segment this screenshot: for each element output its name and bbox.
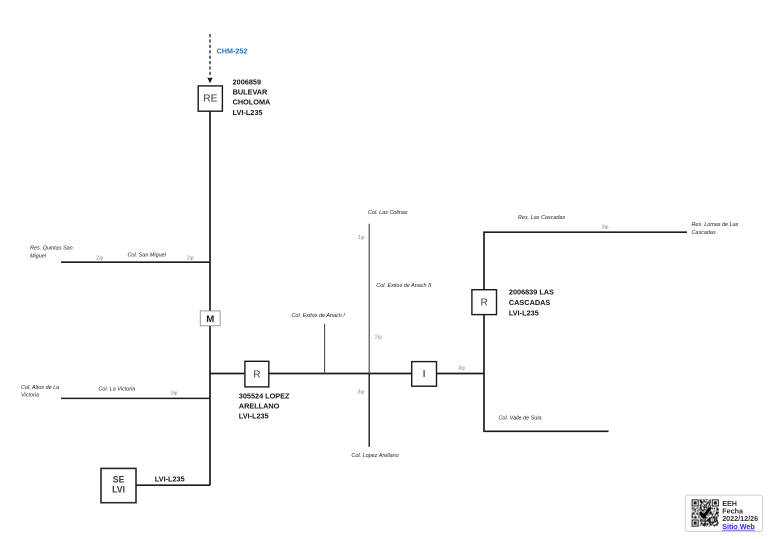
svg-text:ARELLANO: ARELLANO: [239, 401, 280, 410]
svg-text:LVI-L235: LVI-L235: [233, 108, 263, 117]
wire lateral Res. Quintas San Miguel / Col. San Miguel: [61, 261, 210, 263]
wire branch Col. Lopez Arellano vertical: [368, 374, 370, 447]
svg-text:I: I: [423, 369, 426, 380]
recloser R 305524 Lopez Arellano: [245, 361, 269, 387]
wire stub Col. Exitos de Anach I: [324, 324, 326, 374]
svg-text:3φ: 3φ: [602, 224, 609, 230]
svg-text:LVI-L235: LVI-L235: [239, 411, 269, 420]
substation SE LVI: [101, 468, 136, 502]
svg-text:CASCADAS: CASCADAS: [509, 298, 550, 307]
svg-text:Miguel: Miguel: [30, 253, 47, 259]
svg-text:Col. Exitos de Anach II: Col. Exitos de Anach II: [376, 283, 431, 289]
svg-text:Col. La Victoria: Col. La Victoria: [99, 387, 136, 393]
svg-text:Victoria: Victoria: [21, 393, 39, 399]
svg-text:Cascadas: Cascadas: [692, 230, 716, 236]
value label 305524 LOPEZ ARELLANO LVI-L235: [239, 392, 290, 421]
svg-text:3φ: 3φ: [357, 390, 364, 396]
wire incoming dashed feed CHM-252: [209, 34, 211, 77]
QR code: [692, 499, 719, 526]
svg-text:CHOLOMA: CHOLOMA: [233, 98, 271, 107]
svg-text:Col. Las Colinas: Col. Las Colinas: [368, 210, 408, 216]
svg-text:LVI-L235: LVI-L235: [155, 475, 185, 484]
svg-text:Res. Quintas San: Res. Quintas San: [30, 245, 73, 251]
svg-text:BULEVAR: BULEVAR: [233, 88, 268, 97]
arrowhead incoming feed: [207, 78, 212, 83]
svg-text:Col. Valle de Sula: Col. Valle de Sula: [499, 415, 542, 421]
svg-text:RE: RE: [203, 94, 217, 105]
recloser RE: [198, 86, 222, 111]
svg-text:Col. Exitos de Anach I: Col. Exitos de Anach I: [292, 313, 346, 319]
switch M: [200, 311, 220, 326]
svg-text:2φ: 2φ: [96, 255, 103, 261]
svg-text:LVI-L235: LVI-L235: [509, 308, 539, 317]
wire Las Cascadas riser and top lateral: [484, 232, 687, 431]
svg-text:M: M: [206, 314, 214, 325]
svg-text:2φ: 2φ: [375, 335, 382, 341]
legend stamp box EEH: [685, 495, 762, 531]
svg-text:Sitio Web: Sitio Web: [722, 522, 755, 531]
svg-text:Res. Las Cascadas: Res. Las Cascadas: [518, 215, 565, 221]
svg-text:305524 LOPEZ: 305524 LOPEZ: [239, 392, 290, 401]
svg-text:2006839 LAS: 2006839 LAS: [509, 288, 554, 297]
svg-text:R: R: [253, 369, 260, 380]
interrupter I: [412, 362, 437, 387]
wire main feeder horizontal: [210, 373, 484, 375]
svg-text:3φ: 3φ: [458, 365, 465, 371]
svg-text:Col. Lopez Arellano: Col. Lopez Arellano: [351, 453, 398, 459]
svg-text:Res. Lomas de Las: Res. Lomas de Las: [692, 222, 739, 228]
wire lateral Col. La Victoria: [61, 397, 210, 399]
svg-text:3φ: 3φ: [171, 391, 178, 397]
wire substation to trunk: [136, 484, 210, 486]
svg-text:Col. Altos de La: Col. Altos de La: [21, 385, 59, 391]
wire branch Col. Las Colinas vertical: [368, 224, 370, 374]
svg-text:1φ: 1φ: [358, 235, 365, 241]
svg-text:R: R: [481, 298, 488, 309]
value label 2006859 BULEVAR CHOLOMA LVI-L235: [233, 77, 271, 117]
QR check mark: [701, 509, 710, 517]
value label 2006839 LAS CASCADAS LVI-L235: [509, 288, 554, 318]
wire trunk vertical LVI-L235: [209, 111, 211, 485]
svg-text:2006859: 2006859: [233, 77, 261, 86]
svg-text:CHM-252: CHM-252: [217, 46, 248, 55]
svg-text:SE: SE: [113, 475, 125, 485]
svg-text:2φ: 2φ: [187, 255, 194, 261]
svg-text:LVI: LVI: [112, 484, 125, 494]
recloser R 2006839 Las Cascadas: [472, 290, 497, 315]
svg-text:Col. San Miguel: Col. San Miguel: [128, 252, 167, 258]
